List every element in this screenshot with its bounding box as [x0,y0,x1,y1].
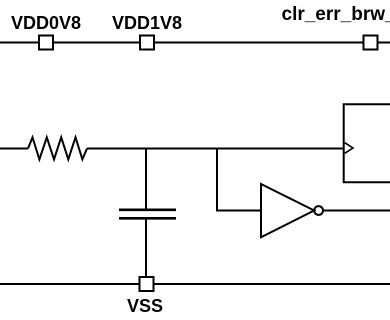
flip-flop U2 [344,104,390,182]
svg-text:clr_err_brw_: clr_err_brw_ [282,4,390,25]
svg-text:VDD1V8: VDD1V8 [112,13,182,33]
label VSS [127,296,163,316]
power terminal VDD0V8 [39,36,53,50]
power terminal clr_err_brw [364,36,378,50]
ground terminal VSS [140,277,154,291]
wire: inverter input branch [217,149,261,211]
wire: bottom VSS rail [0,283,390,285]
clock input marker of flip-flop [345,143,353,154]
power terminal VDD1V8 [140,36,154,50]
label VDD1V8 [112,13,182,33]
label VDD0V8 [11,13,81,33]
wire: top supply rail [0,42,390,44]
capacitor C1 [119,210,176,219]
wire: capacitor top lead [145,149,147,210]
node A: capacitor junction [146,148,217,150]
svg-text:VSS: VSS [127,296,163,316]
wire: resistor output to capacitor node [87,148,146,150]
resistor R1 [28,137,87,159]
wire: capacitor bottom lead [145,218,147,277]
wire: inverter output [323,210,390,212]
wire: node B to flip-flop clock input [217,148,344,150]
svg-text:VDD0V8: VDD0V8 [11,13,81,33]
label clr_err_brw_ [282,4,390,25]
inverter U1 [261,184,323,237]
wire: left input to resistor [0,148,28,150]
